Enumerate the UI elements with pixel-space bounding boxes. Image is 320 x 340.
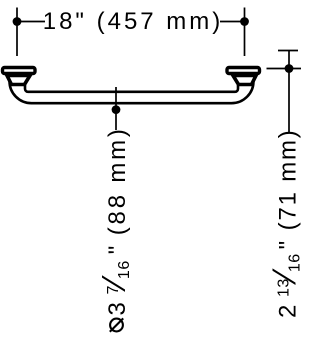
svg-text:3 7⁄16"(88 mm): 3 7⁄16"(88 mm): [95, 126, 133, 315]
svg-text:18" (457 mm): 18" (457 mm): [43, 8, 224, 35]
svg-text:2 13⁄16"(71 mm): 2 13⁄16"(71 mm): [266, 128, 304, 318]
